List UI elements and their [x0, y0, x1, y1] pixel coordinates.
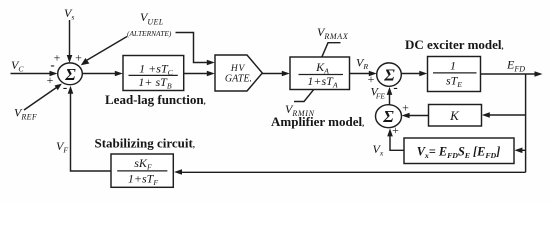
arrowhead VFE into S2: [387, 87, 393, 95]
wire into K block: [489, 114, 526, 116]
svg-text:+: +: [402, 101, 409, 115]
block lead-lag: [123, 56, 184, 91]
svg-text:-: -: [393, 80, 397, 95]
svg-text:(ALTERNATE): (ALTERNATE): [127, 29, 172, 38]
arrowhead Vx line into S3: [387, 128, 393, 136]
HV gate: [215, 55, 262, 91]
svg-text:+: +: [392, 123, 399, 137]
wire bottom feedback to stabilizer: [181, 171, 526, 173]
arrowhead into amplifier: [282, 71, 290, 77]
block exciter: [428, 57, 481, 92]
wire S1 to lead-lag: [82, 73, 116, 75]
block K: [429, 105, 482, 127]
svg-text:+: +: [75, 50, 82, 64]
wire gate to amplifier: [262, 73, 284, 75]
svg-text:K: K: [449, 108, 460, 123]
wire K output to S3: [408, 115, 429, 117]
summing junction S3: [376, 105, 402, 128]
svg-text:Lead-lag function,: Lead-lag function,: [105, 92, 206, 107]
svg-text:HV: HV: [230, 64, 246, 74]
summing junction S1: [58, 63, 83, 85]
arrowhead into exciter: [419, 71, 427, 77]
arrowhead K out into S3: [402, 113, 410, 119]
arrowhead EFD output: [535, 71, 543, 77]
arrowhead VUEL into gate: [207, 60, 215, 66]
arrowhead into S1 left: [50, 71, 58, 77]
wire amplifier to S2: [350, 73, 371, 75]
arrowhead VUEL diag into S1: [81, 58, 90, 65]
wire Vx block to S3: [390, 135, 404, 151]
wire VREF diagonal to S1: [24, 88, 57, 111]
wire exciter output EFD: [481, 73, 537, 75]
wire VUEL diagonal to summing junction S1: [86, 37, 128, 62]
arrowhead into S2: [369, 71, 377, 77]
arrowhead into lead-lag: [115, 71, 123, 77]
wire VC input: [11, 73, 52, 75]
arrowhead main into gate: [207, 71, 215, 77]
wire VUEL to HV gate: [176, 33, 209, 63]
block amplifier: [290, 57, 350, 90]
svg-text:Amplifier model,: Amplifier model,: [271, 114, 364, 129]
wire into Vx block: [521, 149, 526, 151]
svg-text:1: 1: [450, 58, 456, 72]
arrowhead into K: [482, 112, 490, 118]
wire S2 to exciter: [401, 73, 421, 75]
svg-text:1+ sTB: 1+ sTB: [138, 75, 171, 91]
arrowhead into Vx block: [514, 148, 522, 154]
block Vx saturation: [404, 138, 514, 164]
block stabilizer: [111, 154, 173, 187]
wire VF feedback (stabilizer output up to S1): [71, 93, 112, 172]
limiter mark VRMAX: [322, 43, 341, 57]
wire Vs input: [69, 20, 71, 57]
svg-text:-: -: [50, 57, 54, 72]
arrowhead VREF diag into S1: [55, 84, 62, 91]
svg-text:DC exciter model,: DC exciter model,: [405, 37, 504, 52]
arrowhead Vs into S1 top: [67, 55, 73, 63]
wire feedback tap vertical: [525, 74, 527, 172]
svg-text:+: +: [47, 73, 54, 87]
arrowhead into stabilizer: [174, 169, 182, 175]
wire VFE from S3 to S2: [389, 94, 391, 105]
svg-text:GATE.: GATE.: [225, 73, 252, 84]
svg-text:Stabilizing circuit,: Stabilizing circuit,: [95, 135, 195, 150]
summing junction S2: [377, 63, 402, 86]
limiter mark VRMIN: [294, 89, 314, 101]
wire lead-lag to gate: [184, 73, 209, 75]
arrowhead VF into S1 bottom: [68, 86, 74, 94]
svg-text:-: -: [63, 80, 67, 95]
